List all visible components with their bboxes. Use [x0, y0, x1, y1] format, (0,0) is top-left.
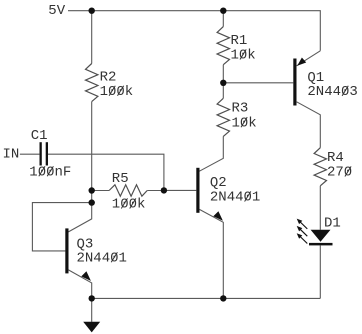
svg-text:10k: 10k — [232, 115, 257, 131]
svg-text:C1: C1 — [31, 128, 48, 144]
svg-text:100nF: 100nF — [29, 165, 71, 181]
svg-text:IN: IN — [3, 147, 20, 163]
svg-text:Q2: Q2 — [210, 175, 227, 191]
svg-text:2N4401: 2N4401 — [77, 251, 127, 267]
svg-text:2N4403: 2N4403 — [307, 84, 357, 100]
svg-text:R5: R5 — [112, 171, 129, 187]
svg-text:2N4401: 2N4401 — [210, 190, 260, 206]
svg-text:R1: R1 — [231, 33, 248, 49]
svg-text:100k: 100k — [112, 197, 146, 213]
svg-text:100k: 100k — [100, 84, 134, 100]
svg-text:10k: 10k — [231, 48, 256, 64]
svg-text:R3: R3 — [232, 101, 249, 117]
svg-text:5V: 5V — [48, 3, 65, 19]
svg-text:R4: R4 — [327, 150, 344, 166]
svg-text:270: 270 — [327, 165, 352, 181]
svg-text:D1: D1 — [324, 216, 341, 232]
